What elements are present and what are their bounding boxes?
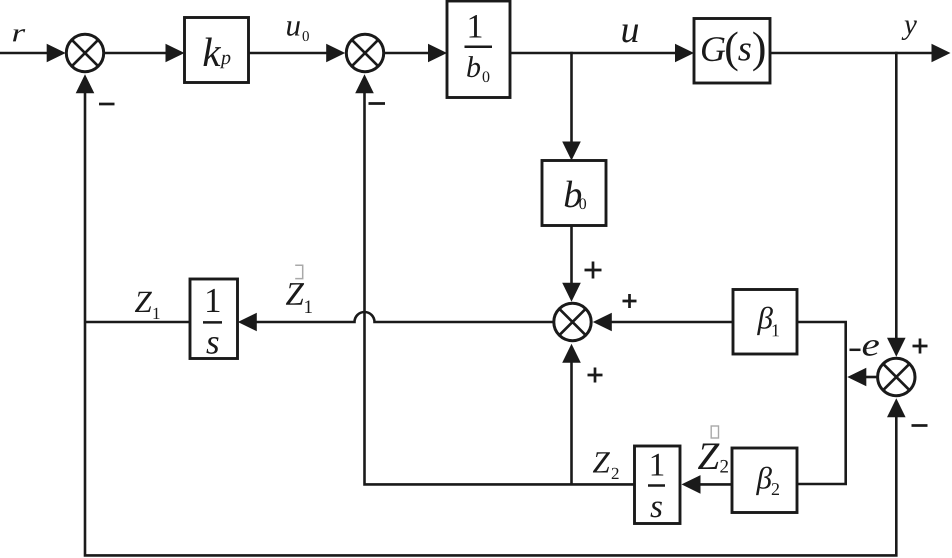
wire: z1 feedback down along bottom to error sum minus [85,322,896,555]
sign minus at sum1 [99,103,115,106]
block beta2 observer gain [732,448,797,513]
wire: z2 line to sum2 minus with branch to center sum [365,90,635,484]
summing junction S1 (r - z1) [66,34,103,71]
block 1/b0 [447,1,510,98]
summing junction S4 (error: y - z1) [878,358,915,395]
wire: center sum output with hop over crossing [254,312,553,322]
wire: beta1 output to center sum [609,321,733,324]
label y (plant output) [902,20,917,40]
block b0 [542,161,606,226]
wire: sum2 to 1/b0 block [385,52,431,55]
sign plus at z2 input to center sum [588,368,603,383]
wire: b0 to center sum [570,226,573,287]
block G(s) plant [694,19,770,84]
wire: kp to sum2 [249,52,330,55]
label u (control signal) [622,25,638,43]
wire: node line joining beta1 and beta2 inputs [797,322,846,484]
label u0 [287,21,300,36]
sign plus at beta1 input to center sum [623,294,637,308]
label z1 (state estimate) [135,292,152,312]
label z2-hat with stray box glyph [698,443,720,469]
block integrator 1/s for z2 [635,446,681,524]
summing junction S2 (u0 - z2) [346,34,383,71]
wire: G(s) to output y [770,52,935,55]
wire: z1 integrator output to left [85,321,190,324]
block kp (proportional gain) [185,18,249,83]
sign minus at error sum bottom [912,424,928,427]
wire: error sum output -e [863,376,877,379]
wire: 1/b0 to G(s), node at u branch [510,52,678,55]
wire: sum1 to kp block [105,52,169,55]
sign plus at b0 output [585,262,602,279]
wire: y branch down to error sum [895,52,898,341]
label z2 (state estimate) [593,452,610,472]
wire: z2 branch up to center sum plus [570,361,573,484]
block beta1 observer gain [733,290,797,355]
wire: r input line [0,52,49,55]
block integrator 1/s for z1 [190,279,238,359]
wire: beta2 output to z2 integrator [698,483,732,486]
label z1-hat with stray bracket glyph [286,283,304,305]
label -e (error signal) [850,349,861,352]
sign plus at y input to error sum [913,339,928,354]
sign minus at sum2 [369,102,386,105]
wire: z1 feedback up to sum1 minus [84,90,87,322]
label r (reference input) [13,29,25,41]
summing junction S3 (b0*u + beta1*(-e) + z2) [554,303,591,340]
wire: u branch down to b0 [570,52,573,145]
